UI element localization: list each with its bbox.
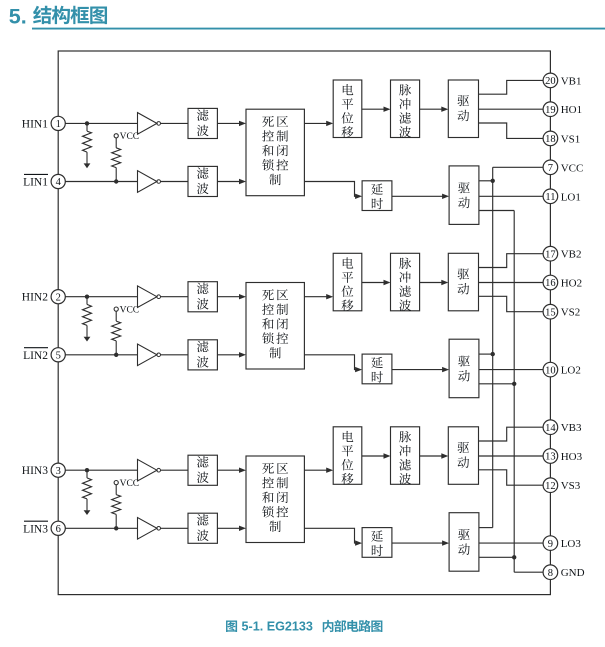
wire LIN2 row [65,354,137,356]
wire driver to VS2 pin [479,296,544,311]
wire GND bus to GND pin [514,571,543,573]
inverter buffer HIN1 [138,113,157,135]
svg-text:GND: GND [561,567,585,579]
wire pulse-filter to high-side driver ch2 [420,282,447,284]
output pin 19 HO1 [543,102,582,117]
inverter buffer LIN1 [138,171,157,193]
output pin 20 VB1 [543,73,581,88]
wire filter to dead-zone (HIN2) [217,296,244,298]
svg-text:LO2: LO2 [561,365,581,377]
svg-text:VCC: VCC [120,132,140,142]
wire buffer to filter (LIN1) [161,181,189,183]
resistor pull-down on HIN2 [86,297,88,305]
svg-text:HIN1: HIN1 [22,118,48,130]
low-side driver block 驱动 ch2 [449,339,479,398]
wire dead-zone to level-shift ch1 [304,122,331,124]
wire buffer to filter (LIN3) [161,527,189,529]
svg-text:20: 20 [545,76,556,87]
heading underline rule [32,28,605,30]
wire driver to VB1 pin [479,80,544,94]
svg-text:11: 11 [545,192,555,203]
GND distribution bus (vertical) [513,211,515,573]
figure caption 图 5-1. EG2133 内部电路图 [226,619,382,633]
wire filter to dead-zone (LIN2) [217,354,244,356]
wire driver to VS3 pin [479,470,544,485]
svg-text:VB1: VB1 [561,75,582,87]
svg-text:7: 7 [548,163,553,174]
output pin 15 VS2 [543,304,580,319]
level shift block 电平位移 ch2 [333,253,362,310]
VCC node terminal (ch1) [114,134,118,138]
wire driver to HO3 pin [479,455,544,457]
level shift block 电平位移 ch3 [333,427,362,485]
svg-text:5: 5 [56,351,61,362]
wire low driver to GND bus ch1 [479,210,514,212]
inverter buffer HIN3 [138,459,157,481]
VCC node terminal (ch3) [114,481,118,485]
svg-text:13: 13 [545,452,556,463]
resistor VCC pull-up to LIN3 [115,485,117,495]
svg-text:1: 1 [56,119,61,130]
delay block 延时 ch3 [362,528,392,558]
wire buffer to filter (LIN2) [161,354,189,356]
svg-text:LO3: LO3 [561,538,582,550]
inverter buffer LIN2 [138,344,157,366]
wire filter to dead-zone (LIN1) [217,181,244,183]
svg-text:VCC: VCC [120,305,140,315]
wire driver to VB2 pin [479,254,544,268]
wire driver to HO1 pin [479,108,544,110]
svg-text:14: 14 [545,423,556,434]
svg-text:VS3: VS3 [561,480,581,492]
wire filter to dead-zone (HIN1) [217,122,244,124]
svg-text:9: 9 [548,539,553,550]
wire dead-zone to delay ch1 [304,182,360,197]
svg-text:17: 17 [545,249,556,260]
junction dot VCC bus ch2 [491,352,495,356]
level shift block 电平位移 ch1 [333,80,362,138]
svg-text:HIN2: HIN2 [22,292,48,304]
inverter buffer HIN2 [138,286,157,308]
output pin 13 HO3 [543,449,582,464]
resistor VCC pull-up to LIN1 [115,138,117,148]
wire filter to dead-zone (HIN3) [217,469,244,471]
wire level-shift to pulse-filter ch2 [362,282,389,284]
svg-text:VB3: VB3 [561,422,582,434]
node junction on LIN3 [114,526,118,530]
wire level-shift to pulse-filter ch3 [362,455,389,457]
low-side driver block 驱动 ch3 [449,513,479,572]
filter block 滤波 (HIN3) [188,455,217,485]
svg-text:8: 8 [548,568,553,579]
svg-text:5.: 5. [9,5,27,29]
wire dead-zone to level-shift ch3 [304,469,331,471]
filter block 滤波 (LIN2) [188,340,217,370]
wire pulse-filter to high-side driver ch3 [420,455,447,457]
node junction on LIN1 [114,179,118,183]
wire low driver to LO1 pin [479,195,543,197]
section heading "5. 结构框图" [9,5,107,29]
svg-text:VS2: VS2 [561,307,581,319]
node junction on LIN2 [114,353,118,357]
wire delay to low-side driver ch1 [392,195,447,197]
node junction on HIN2 [85,295,89,299]
wire driver to VB3 pin [479,427,544,441]
filter block 滤波 (LIN1) [188,166,217,196]
wire buffer to filter (HIN2) [161,296,189,298]
input pin 3 HIN3 [22,463,66,477]
pulse filter block 脉冲滤波 ch2 [391,253,420,310]
ground arrow under pull-down R (ch1) [84,163,91,168]
VCC distribution bus (vertical) [492,167,494,527]
pulse filter block 脉冲滤波 ch1 [391,80,420,138]
wire HIN3 row [65,469,137,471]
filter block 滤波 (LIN3) [188,513,217,543]
wire level-shift to pulse-filter ch1 [362,108,389,110]
ground arrow under pull-down R (ch3) [84,510,91,515]
ground arrow under pull-down R (ch2) [84,337,91,342]
dead-zone and latch control block ch1 死区控制和闭锁控制 [246,109,304,196]
wire LIN1 row [65,181,137,183]
svg-text:VB2: VB2 [561,249,582,261]
svg-text:4: 4 [56,177,62,188]
resistor pull-down on HIN1 [86,123,88,131]
output pin 17 VB2 [543,246,581,261]
svg-text:18: 18 [545,134,556,145]
output pin 14 VB3 [543,420,582,435]
input pin 1 HIN1 [22,116,66,130]
svg-text:LIN1: LIN1 [23,177,48,189]
svg-text:VCC: VCC [120,479,140,489]
low-side driver block 驱动 ch1 [449,166,479,225]
svg-text:16: 16 [545,278,556,289]
wire delay to low-side driver ch2 [392,369,447,371]
svg-text:LO1: LO1 [561,191,581,203]
output pin 7 VCC [543,160,583,175]
node junction on HIN3 [85,468,89,472]
filter block 滤波 (HIN2) [188,282,217,312]
input pin 4 LIN1 [23,174,65,188]
wire LIN3 row [65,527,137,529]
wire low driver to VCC bus ch3 [479,527,493,529]
VCC node terminal (ch2) [114,307,118,311]
svg-text:2: 2 [56,292,61,303]
wire dead-zone to level-shift ch2 [304,296,331,298]
delay block 延时 ch1 [362,181,392,211]
wire dead-zone to delay ch2 [304,355,360,370]
wire driver to HO2 pin [479,282,544,284]
wire low driver to GND bus ch2 [479,383,514,385]
node junction on HIN1 [85,121,89,125]
wire VCC pin to bus corner [493,166,543,168]
svg-text:HIN3: HIN3 [22,465,48,477]
svg-text:12: 12 [545,481,556,492]
wire dead-zone to delay ch3 [304,528,360,543]
svg-text:10: 10 [545,365,556,376]
svg-text:VS1: VS1 [561,133,581,145]
delay block 延时 ch2 [362,354,392,384]
svg-text:HO3: HO3 [561,451,583,463]
dead-zone and latch control block ch3 死区控制和闭锁控制 [246,456,304,543]
output pin 18 VS1 [543,131,580,146]
svg-text:5-1. EG2133: 5-1. EG2133 [242,619,313,633]
svg-text:VCC: VCC [561,162,584,174]
output pin 10 LO2 [543,362,581,377]
svg-text:LIN3: LIN3 [23,523,48,535]
high-side driver block 驱动 ch1 [448,80,478,138]
wire buffer to filter (HIN1) [161,122,189,124]
output pin 12 VS3 [543,478,581,493]
wire low driver to VCC bus ch2 [479,353,493,355]
svg-text:HO2: HO2 [561,278,582,290]
filter block 滤波 (HIN1) [188,108,217,138]
high-side driver block 驱动 ch3 [448,427,478,485]
output pin 8 GND [543,565,584,580]
output pin 16 HO2 [543,275,582,290]
wire HIN1 row [65,122,137,124]
input pin 2 HIN2 [22,290,66,304]
junction dot GND bus ch3 [512,555,516,559]
svg-text:15: 15 [545,307,556,318]
svg-text:3: 3 [56,466,61,477]
wire buffer to filter (HIN3) [161,469,189,471]
wire pulse-filter to high-side driver ch1 [420,108,447,110]
svg-text:LIN2: LIN2 [23,350,48,362]
wire low driver to LO2 pin [479,369,543,371]
wire HIN2 row [65,296,137,298]
resistor pull-down on HIN3 [86,470,88,478]
wire low driver to LO3 pin [479,542,543,544]
pulse filter block 脉冲滤波 ch3 [391,427,420,485]
wire low driver to GND bus ch3 [479,556,514,558]
input pin 6 LIN3 [23,521,65,535]
dead-zone and latch control block ch2 死区控制和闭锁控制 [246,283,304,370]
IC outline box [58,51,550,595]
output pin 11 LO1 [543,189,581,204]
input pin 5 LIN2 [23,348,65,362]
output pin 9 LO3 [543,536,581,551]
svg-text:19: 19 [545,105,556,116]
svg-text:6: 6 [56,524,61,535]
wire delay to low-side driver ch3 [392,542,447,544]
wire low driver to VCC bus ch1 [479,180,493,182]
wire filter to dead-zone (LIN3) [217,527,244,529]
wire driver to VS1 pin [479,123,544,138]
high-side driver block 驱动 ch2 [448,253,478,310]
svg-text:HO1: HO1 [561,104,582,116]
junction dot GND bus ch2 [512,382,516,386]
inverter buffer LIN3 [138,518,157,540]
resistor VCC pull-up to LIN2 [115,311,117,321]
junction dot VCC bus ch1 [491,179,495,183]
